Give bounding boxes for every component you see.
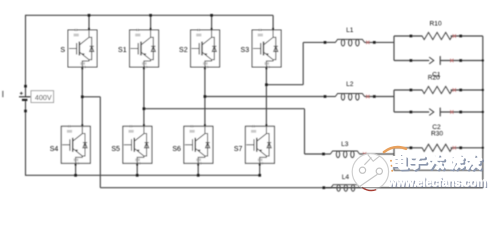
svg-text:S4: S4 — [50, 146, 59, 153]
svg-text:L2: L2 — [346, 81, 354, 88]
svg-text:R10: R10 — [430, 20, 442, 27]
svg-text:S3: S3 — [241, 47, 250, 54]
svg-text:S7: S7 — [234, 146, 243, 153]
svg-text:400V: 400V — [35, 93, 52, 102]
svg-text:S2: S2 — [179, 47, 188, 54]
svg-text:L3: L3 — [341, 141, 349, 148]
svg-text:L1: L1 — [346, 27, 354, 34]
svg-text:S5: S5 — [111, 146, 120, 153]
svg-text:S1: S1 — [118, 47, 127, 54]
svg-text:L4: L4 — [342, 174, 350, 181]
svg-text:S: S — [60, 47, 65, 54]
svg-text:R30: R30 — [431, 130, 443, 137]
svg-text:R20: R20 — [428, 74, 440, 81]
svg-text:S6: S6 — [172, 146, 181, 153]
